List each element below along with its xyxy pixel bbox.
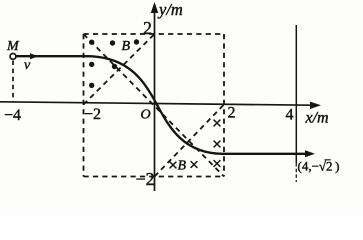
svg-text:v: v: [24, 58, 31, 73]
svg-text:x/m: x/m: [305, 110, 329, 127]
x-axis: [0, 102, 321, 109]
square bottom edge y=-2: [84, 176, 225, 178]
diagonal (-2,0) to (0,2): [84, 34, 155, 105]
svg-text:−2: −2: [84, 106, 101, 123]
diagonal (0,-2) to (2,0): [155, 105, 225, 177]
svg-text:2: 2: [228, 105, 236, 122]
svg-text:(4,−√2 ): (4,−√2 ): [298, 159, 340, 174]
point M circle: [10, 54, 16, 60]
vertical guide line x=4 lower faded part: [295, 163, 297, 182]
field dots (B out of page): [89, 39, 139, 88]
svg-text:−2: −2: [136, 169, 155, 189]
diagonal (-2,2) to (2,-2): [84, 34, 225, 177]
y-axis: [151, 2, 159, 191]
dashed drop line from M to x-axis: [12, 61, 14, 102]
vertical guide line x=4: [295, 25, 297, 163]
square top edge y=2: [84, 33, 225, 35]
field crosses (B into page): [170, 120, 221, 169]
radical overbar: [325, 159, 331, 161]
svg-text:O: O: [141, 108, 151, 123]
square left edge x=-2: [83, 34, 85, 177]
particle trajectory: [13, 56, 307, 154]
svg-text:M: M: [6, 39, 20, 54]
svg-text:y/m: y/m: [157, 0, 183, 19]
svg-text:2: 2: [143, 18, 152, 38]
velocity arrowhead v: [30, 53, 39, 59]
square right edge x=2: [223, 34, 225, 177]
dashed field-region square: [84, 34, 225, 177]
trajectory end arrowhead: [305, 150, 315, 157]
svg-text:−4: −4: [4, 107, 21, 124]
svg-text:4: 4: [286, 107, 294, 124]
svg-text:B: B: [122, 39, 131, 54]
svg-text:B: B: [178, 159, 187, 174]
